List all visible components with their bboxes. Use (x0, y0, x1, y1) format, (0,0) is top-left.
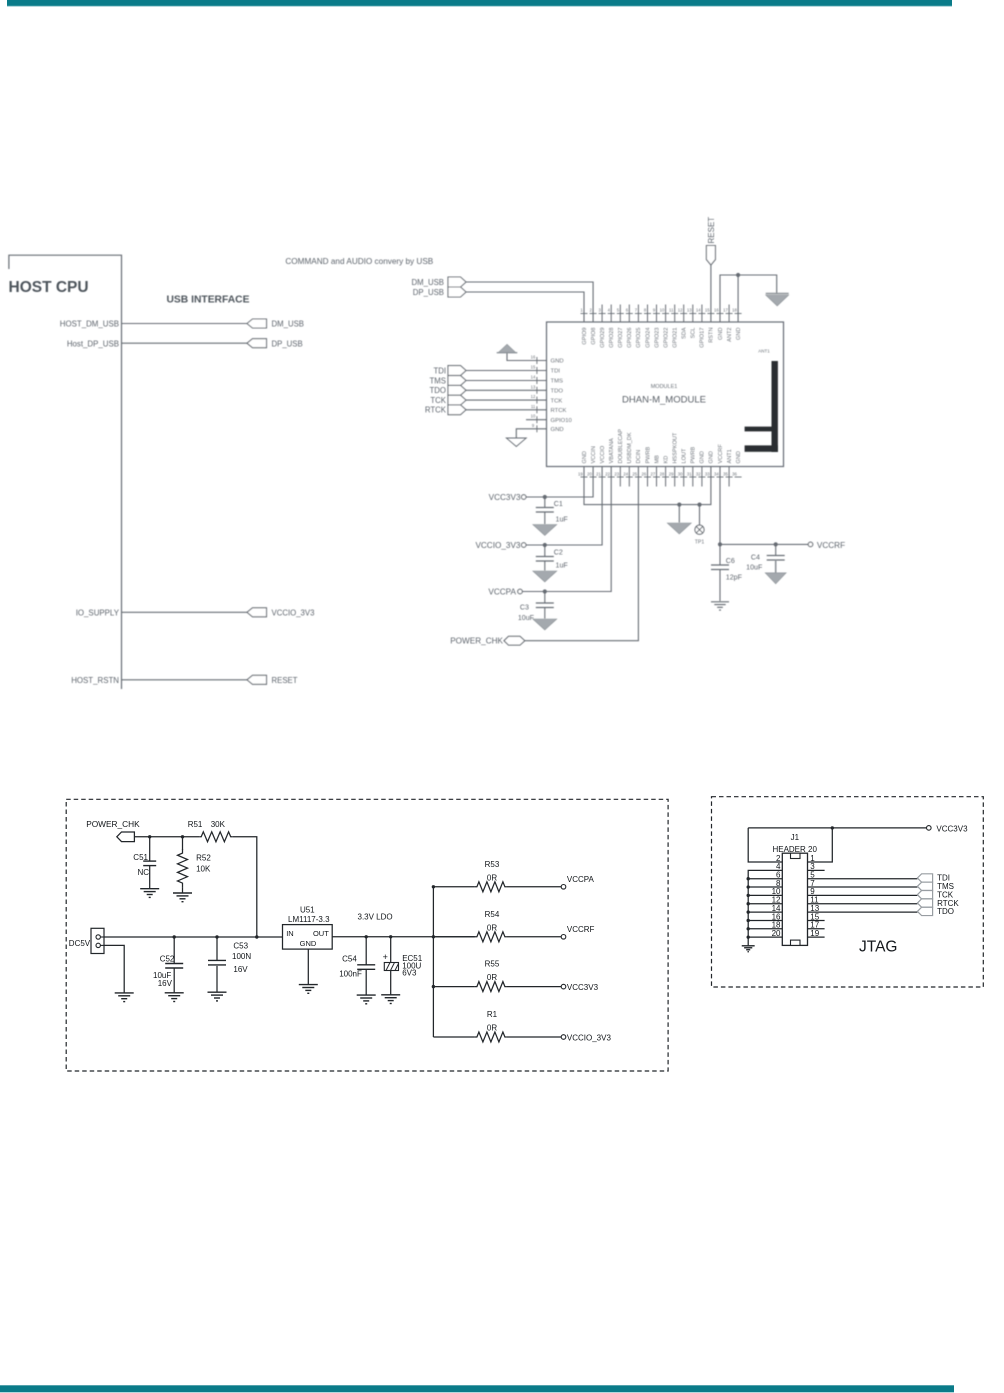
svg-text:GND: GND (551, 359, 564, 365)
svg-text:12pF: 12pF (726, 573, 743, 581)
svg-text:VCCPA: VCCPA (488, 588, 516, 597)
svg-text:GPIO24: GPIO24 (645, 328, 651, 348)
test point TP1 (695, 505, 704, 535)
svg-text:10uF: 10uF (518, 614, 535, 622)
wire pin9 TCK (808, 894, 918, 896)
module left pin 16 GND (531, 355, 564, 365)
svg-text:MODULE1: MODULE1 (651, 384, 678, 390)
svg-text:GND: GND (300, 939, 317, 948)
svg-text:R1: R1 (487, 1010, 498, 1019)
module left pin 9 GND (532, 423, 564, 433)
svg-text:VCCRF: VCCRF (567, 925, 595, 934)
junction dot node R54 (432, 935, 435, 938)
ground below GND rail (667, 523, 691, 534)
svg-text:DHAN-M_MODULE: DHAN-M_MODULE (622, 395, 706, 406)
module left pin 10 GPIO10 (531, 414, 573, 424)
net tag RTCK (JTAG) (917, 899, 932, 907)
svg-text:USB INTERFACE: USB INTERFACE (167, 295, 250, 306)
junction dot VCCRF/C4 (774, 542, 778, 546)
net tag RESET (247, 675, 267, 684)
svg-text:GPIO28: GPIO28 (609, 328, 615, 348)
svg-text:10: 10 (660, 308, 665, 313)
module top pin 10 GPIO22 (660, 305, 670, 348)
svg-text:GPIO22: GPIO22 (663, 328, 669, 348)
junction dot TP1 (697, 503, 701, 507)
svg-text:POWER_CHK: POWER_CHK (450, 637, 503, 646)
svg-text:VCCPA: VCCPA (567, 875, 595, 884)
wire R51 to rail (233, 837, 257, 937)
junction dot pin20 (747, 935, 750, 938)
svg-text:C3: C3 (520, 604, 529, 612)
module left pin 15 TDI (531, 365, 561, 375)
module bottom pin 27 MB (651, 455, 661, 487)
svg-text:RSTN: RSTN (709, 328, 715, 343)
module bottom pin 22 VBATANA (605, 438, 615, 477)
antenna symbol (thick F) (745, 361, 778, 452)
svg-text:13: 13 (531, 384, 536, 389)
wire VCCIO_3V3 to VCCIO pin (526, 467, 602, 546)
svg-text:12: 12 (678, 308, 683, 313)
wire POWER_CHK to module pin (525, 467, 639, 641)
svg-text:GPIO9: GPIO9 (582, 328, 588, 345)
ground below C2 (533, 571, 557, 582)
svg-text:RESET: RESET (707, 217, 716, 244)
svg-text:GND: GND (736, 451, 742, 463)
wire pin11 RTCK (808, 903, 918, 905)
svg-text:+: + (383, 952, 388, 962)
svg-text:DM_USB: DM_USB (272, 320, 305, 329)
wire VCCPA to VBATANA pin (522, 467, 611, 592)
wire HOST_RSTN (122, 679, 248, 681)
terminal VCCRF (561, 935, 566, 940)
wire DM_USB to module pin (466, 282, 593, 322)
resistor R51 (199, 832, 232, 842)
module top pin 12 SDA (678, 305, 688, 340)
svg-text:HSSPKOUT: HSSPKOUT (673, 432, 679, 463)
wire pin6 to GND rail (748, 878, 782, 880)
module top pin 9 GPIO23 (653, 305, 660, 348)
junction dot C52 (173, 935, 176, 938)
wire pin13 TDO (808, 911, 918, 913)
svg-text:HOST_DM_USB: HOST_DM_USB (60, 320, 119, 329)
svg-text:32: 32 (696, 472, 701, 477)
capacitor C3 (536, 592, 554, 619)
svg-text:DC5V: DC5V (69, 939, 91, 948)
svg-text:VCC3V3: VCC3V3 (489, 493, 521, 502)
svg-text:C6: C6 (726, 557, 735, 565)
svg-text:R52: R52 (196, 854, 211, 863)
net tag TCK (448, 395, 466, 405)
ground below C51 (140, 888, 159, 890)
svg-text:R51: R51 (188, 820, 203, 829)
svg-text:GND: GND (551, 427, 564, 433)
svg-text:C52: C52 (160, 955, 175, 964)
module top pin 2 GPIO8 (590, 308, 597, 345)
net tag TDO (JTAG) (917, 907, 932, 915)
module top pin 13 SCL (687, 305, 697, 339)
svg-text:14: 14 (696, 308, 701, 313)
svg-text:27: 27 (651, 472, 656, 477)
svg-text:24: 24 (623, 472, 628, 477)
junction dot EC51 (389, 935, 392, 938)
net tag TDI (JTAG) (917, 874, 932, 882)
wire VCC3V3 top rail (748, 827, 926, 829)
svg-text:VCCRF: VCCRF (817, 541, 845, 550)
svg-text:22: 22 (605, 472, 610, 477)
svg-text:PWRB: PWRB (691, 446, 697, 463)
module bottom pin 32 GND (696, 451, 706, 486)
net tag TDO (448, 385, 466, 395)
junction dot C51 top (148, 835, 151, 838)
net tag TMS (448, 376, 466, 386)
ground below C54 (357, 994, 376, 996)
capacitor C4 (767, 544, 785, 572)
junction dot C54 (365, 935, 368, 938)
svg-text:C53: C53 (233, 942, 248, 951)
svg-text:17: 17 (723, 308, 728, 313)
resistor R52 (178, 849, 188, 887)
junction dot pin10 (747, 894, 750, 897)
wire DP_USB to module pin (466, 292, 584, 322)
svg-text:GPIO8: GPIO8 (591, 328, 597, 345)
module top pin 11 GPIO21 (669, 305, 678, 348)
svg-text:GPIO25: GPIO25 (636, 328, 642, 348)
capacitor C2 (536, 545, 554, 571)
net tag DP_USB (247, 339, 267, 348)
svg-text:VCCIN: VCCIN (591, 446, 597, 463)
svg-text:PWRB: PWRB (645, 446, 651, 463)
svg-text:30: 30 (678, 472, 683, 477)
module bottom pin 34 VCCRF (714, 444, 724, 477)
wire node to R54 (433, 936, 475, 938)
wire pin19 stub (808, 936, 825, 938)
JTAG section dashed border (712, 797, 984, 987)
module bottom pin 21 VCCIO (596, 445, 606, 477)
junction dot pin14 (747, 910, 750, 913)
svg-text:26: 26 (642, 472, 647, 477)
svg-text:MB: MB (654, 455, 660, 464)
svg-text:TDI: TDI (551, 369, 561, 375)
terminal VCC3V3 (JTAG) (927, 826, 932, 831)
net tag RESET (vertical) (706, 246, 715, 266)
svg-text:JTAG: JTAG (859, 939, 897, 956)
net tag DM_USB (448, 277, 466, 287)
ground (up triangle) at pin 16 (497, 344, 518, 352)
regulator U51 LM1117-3.3 (283, 925, 333, 950)
wire TDI to module (466, 370, 547, 372)
ground below J1 rail (742, 945, 755, 947)
svg-text:0R: 0R (487, 873, 497, 882)
svg-text:COMMAND and AUDIO convery by U: COMMAND and AUDIO convery by USB (285, 257, 433, 266)
module left pin 11 RTCK (531, 404, 567, 414)
capacitor C54 (357, 937, 375, 995)
wire Host_DP_USB (122, 342, 248, 344)
wire R55 to terminal (507, 986, 561, 988)
svg-text:USBDM_DK: USBDM_DK (627, 432, 633, 463)
junction dot VCC3V3/C1 (543, 495, 547, 499)
wire R54 to terminal (507, 936, 561, 938)
HOST CPU block outline (9, 255, 122, 689)
module top pin 8 GPIO24 (644, 305, 651, 348)
svg-text:0R: 0R (487, 1024, 497, 1033)
wire VCC rail to pin2 (748, 828, 782, 862)
svg-text:GPIO27: GPIO27 (618, 328, 624, 348)
wire R1 to terminal (507, 1036, 561, 1038)
capacitor C1 (536, 497, 554, 524)
connector J1 body (782, 853, 807, 945)
svg-text:10: 10 (531, 414, 536, 419)
junction dot C53 (215, 935, 218, 938)
svg-text:11: 11 (531, 404, 536, 409)
svg-text:GND: GND (718, 328, 724, 340)
wire TDO to module (466, 389, 547, 391)
module top pin 3 GPIO29 (599, 305, 606, 348)
net tag TDI (448, 366, 466, 376)
wire VCCRF rail (720, 467, 808, 545)
wire GPIO10 stub (526, 419, 547, 421)
net tag DP_USB (448, 287, 466, 297)
svg-text:20: 20 (772, 929, 781, 938)
ground (module top right) (766, 293, 789, 295)
svg-text:SDA: SDA (682, 327, 688, 339)
resistor R54 (475, 932, 507, 942)
ground below C53 (208, 991, 227, 993)
junction dot pin1 branch (831, 826, 834, 829)
junction dot VCCIO/C2 (543, 543, 547, 547)
svg-text:VCC3V3: VCC3V3 (936, 824, 968, 833)
ground below U51 (299, 984, 318, 986)
junction dot R51 branch (255, 935, 258, 938)
svg-text:DM_USB: DM_USB (412, 278, 445, 287)
module bottom pin 30 LOUT (678, 448, 688, 487)
svg-text:KD: KD (663, 456, 669, 464)
resistor R55 (475, 982, 507, 992)
svg-text:36: 36 (732, 472, 737, 477)
module bottom pin 25 DCIN (632, 450, 642, 477)
svg-text:28: 28 (660, 472, 665, 477)
wire pin5 TDI (808, 878, 918, 880)
svg-text:OUT: OUT (313, 929, 329, 938)
svg-text:25: 25 (632, 472, 637, 477)
svg-text:34: 34 (714, 472, 719, 477)
wire GND rail pin4 down to ground (748, 870, 782, 945)
wire VCC3V3 to VCCIN pin (526, 467, 593, 498)
svg-text:TDO: TDO (430, 386, 446, 395)
svg-text:16V: 16V (158, 979, 173, 988)
wire pin8 to GND rail (748, 886, 782, 888)
svg-text:SCL: SCL (691, 328, 697, 339)
svg-text:IO_SUPPLY: IO_SUPPLY (76, 609, 120, 618)
module top pin 17 ANT2 (723, 305, 733, 342)
svg-text:TMS: TMS (551, 379, 564, 385)
ground below C3 (533, 619, 557, 630)
module bottom pin 26 PWRB (642, 446, 652, 486)
svg-text:HOST_RSTN: HOST_RSTN (71, 676, 119, 685)
svg-text:14: 14 (531, 375, 536, 380)
wire R53 to terminal (507, 886, 561, 888)
module U: DHAN-M_MODULE body (547, 322, 784, 467)
wire RTCK to module (466, 409, 547, 411)
junction dot pin12 (747, 902, 750, 905)
svg-text:20: 20 (587, 472, 592, 477)
svg-text:3.3V LDO: 3.3V LDO (358, 913, 393, 922)
wire DC5V pin1 rail (104, 936, 283, 938)
svg-text:DP_USB: DP_USB (413, 288, 444, 297)
svg-text:16V: 16V (233, 965, 248, 974)
power section dashed border (66, 799, 668, 1071)
wire pin1 to VCC rail (808, 828, 833, 862)
svg-text:GND: GND (736, 328, 742, 340)
svg-text:LM1117-3.3: LM1117-3.3 (288, 915, 330, 924)
module bottom pin 35 ANT1 (723, 449, 733, 486)
svg-text:15: 15 (705, 308, 710, 313)
svg-text:GPIO10: GPIO10 (551, 418, 573, 424)
svg-text:GND: GND (709, 451, 715, 463)
svg-text:R53: R53 (485, 860, 500, 869)
junction dot GND rail (677, 503, 681, 507)
terminal VCCRF (module) (808, 542, 813, 547)
wire U51 OUT rail (332, 936, 475, 938)
terminal VCCIO_3V3 (module) (521, 543, 526, 548)
capacitor C52 (165, 937, 183, 992)
svg-text:29: 29 (669, 472, 674, 477)
capacitor EC51 (polarized) (384, 937, 398, 995)
svg-text:18: 18 (732, 308, 737, 313)
net tag POWER_CHK (module, hexagon) (504, 636, 525, 645)
module top pin 18 GND (732, 308, 742, 340)
svg-text:U51: U51 (300, 906, 315, 915)
wire node to R1 (433, 1036, 475, 1038)
svg-text:TP1: TP1 (695, 540, 705, 546)
svg-text:DOUBLECAP: DOUBLECAP (618, 429, 624, 464)
svg-text:GND: GND (700, 451, 706, 463)
svg-text:100N: 100N (232, 952, 251, 961)
svg-text:GPIO29: GPIO29 (600, 328, 606, 348)
junction dot VCCRF/C6 (718, 542, 722, 546)
svg-text:VCCIO_3V3: VCCIO_3V3 (475, 541, 520, 550)
svg-text:100nF: 100nF (339, 969, 362, 978)
svg-text:10K: 10K (196, 864, 211, 873)
svg-text:19: 19 (578, 472, 583, 477)
junction dot pin16 (747, 919, 750, 922)
wire R52 top stem (182, 837, 184, 850)
svg-text:DCIN: DCIN (636, 450, 642, 464)
capacitor C51 (143, 837, 156, 889)
junction dot VCCPA/C3 (543, 589, 547, 593)
svg-text:TMS: TMS (430, 376, 446, 385)
svg-text:TDO: TDO (937, 907, 954, 916)
junction dot pin8 (747, 885, 750, 888)
svg-text:33: 33 (705, 472, 710, 477)
wire TMS to module (466, 380, 547, 382)
junction dot node R53 (432, 885, 435, 888)
svg-text:16: 16 (531, 355, 536, 360)
svg-text:HOST CPU: HOST CPU (9, 279, 89, 296)
module bottom pin 20 VCCIN (587, 446, 597, 477)
svg-text:21: 21 (596, 472, 601, 477)
wire distribution node vertical (432, 887, 434, 1037)
svg-text:30K: 30K (211, 820, 226, 829)
wire node to R55 (433, 986, 475, 988)
wire pin7 TMS (808, 886, 918, 888)
svg-text:Host_DP_USB: Host_DP_USB (67, 339, 119, 348)
connector DC5V (91, 928, 104, 953)
module bottom pin 19 GND (578, 451, 588, 477)
net tag DM_USB (247, 319, 267, 328)
module bottom pin 28 KD (660, 456, 670, 487)
module top pin 6 GPIO26 (626, 305, 633, 348)
resistor R53 (475, 882, 507, 892)
wire POWER_CHK to R51 (134, 836, 199, 838)
net tag RTCK (448, 405, 466, 415)
svg-text:C4: C4 (751, 554, 760, 562)
svg-text:VCCIO_3V3: VCCIO_3V3 (567, 1034, 612, 1043)
svg-text:GPIO17: GPIO17 (700, 328, 706, 348)
svg-text:POWER_CHK: POWER_CHK (86, 819, 140, 829)
wire pin16 to GND rail (748, 919, 782, 921)
svg-text:6V3: 6V3 (402, 968, 417, 977)
ground below C4 (765, 573, 786, 584)
module top pin 1 GPIO9 (580, 308, 587, 345)
wire pin15 stub (808, 919, 825, 921)
junction dot R52 top (181, 835, 184, 838)
svg-text:GND: GND (582, 451, 588, 463)
module top pin 15 RSTN (705, 308, 715, 343)
svg-text:VCC3V3: VCC3V3 (567, 983, 599, 992)
svg-text:ANT2: ANT2 (727, 328, 733, 342)
svg-text:J1: J1 (791, 833, 800, 842)
module left pin 12 TCK (531, 394, 563, 404)
svg-text:12: 12 (531, 394, 536, 399)
wire R52 to ground (182, 887, 184, 893)
svg-text:23: 23 (614, 472, 619, 477)
svg-text:10uF: 10uF (746, 564, 763, 572)
junction dot top GND rail (736, 273, 740, 277)
svg-text:C54: C54 (342, 954, 357, 963)
svg-text:15: 15 (531, 365, 536, 370)
svg-text:31: 31 (687, 472, 692, 477)
module top pin 5 GPIO27 (617, 305, 624, 348)
resistor R1 (475, 1032, 507, 1042)
ground below C6 (711, 601, 729, 603)
svg-text:TDI: TDI (433, 366, 446, 375)
module bottom pin 29 HSSPKOUT (669, 432, 679, 486)
terminal VCCIO_3V3 (561, 1035, 566, 1040)
wire DC5V pin2 to ground (104, 945, 124, 992)
svg-text:RTCK: RTCK (551, 408, 567, 414)
svg-text:19: 19 (810, 929, 819, 938)
net tag TCK (JTAG) (917, 891, 932, 899)
module bottom pin 24 USBDM_DK (623, 432, 633, 486)
svg-text:VBATANA: VBATANA (609, 438, 615, 464)
ground below C52 (165, 992, 184, 994)
wire pin14 to GND rail (748, 911, 782, 913)
svg-text:C1: C1 (554, 500, 563, 508)
svg-text:RTCK: RTCK (425, 406, 447, 415)
svg-text:TCK: TCK (430, 396, 446, 405)
svg-text:VCCIO: VCCIO (600, 445, 606, 463)
wire IO_SUPPLY (122, 611, 248, 613)
terminal VCCPA (module) (518, 589, 523, 594)
svg-text:R55: R55 (485, 960, 500, 969)
ground below EC51 (381, 994, 400, 996)
module bottom pin 23 DOUBLECAP (614, 429, 624, 487)
svg-text:NC: NC (138, 868, 150, 877)
svg-text:R54: R54 (485, 910, 500, 919)
wire node to R53 (433, 886, 475, 888)
ground below DC5V (115, 992, 134, 994)
wire RESET to RSTN pin (710, 265, 712, 322)
